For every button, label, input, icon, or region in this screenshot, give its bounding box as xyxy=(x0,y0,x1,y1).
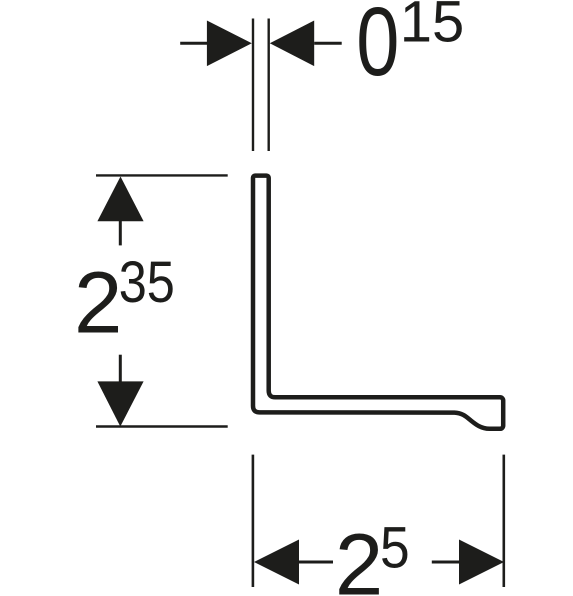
svg-text:2: 2 xyxy=(335,517,383,596)
svg-text:35: 35 xyxy=(119,250,175,315)
svg-text:2: 2 xyxy=(74,255,122,352)
svg-text:0: 0 xyxy=(356,0,399,96)
svg-text:5: 5 xyxy=(380,515,410,580)
svg-text:15: 15 xyxy=(400,0,465,55)
